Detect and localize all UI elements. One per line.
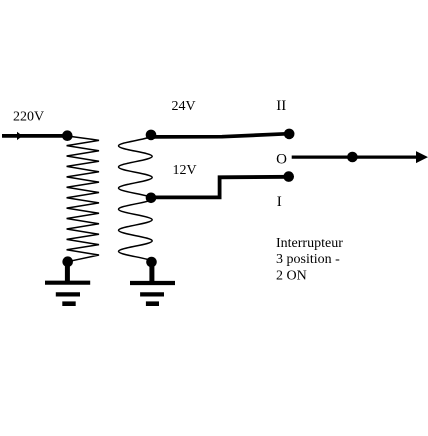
ground (primary side) (45, 262, 90, 304)
arrowhead on 220V input wire (17, 132, 23, 140)
svg-text:Interrupteur: Interrupteur (276, 236, 343, 251)
node contact II (284, 129, 295, 140)
svg-text:220V: 220V (13, 109, 44, 124)
node primary bottom (62, 256, 73, 267)
node on output wire (347, 152, 358, 163)
svg-text:I: I (277, 194, 282, 210)
node 24V tap (146, 130, 157, 141)
wire 24V tap to contact II (151, 134, 289, 137)
arrowhead output (416, 151, 428, 163)
svg-text:24V: 24V (172, 99, 196, 114)
node 220V / primary top (62, 130, 73, 141)
svg-text:O: O (276, 151, 287, 167)
node secondary bottom (146, 257, 157, 268)
node contact I (283, 171, 294, 182)
ground (secondary side) (130, 262, 175, 304)
svg-text:II: II (276, 98, 286, 114)
svg-text:12V: 12V (173, 163, 197, 178)
wire 220V input (2, 134, 64, 138)
wire output (common pole O) (292, 156, 417, 159)
node 12V tap (146, 193, 157, 204)
wire 12V tap to contact I (151, 177, 289, 198)
transformer primary winding L1 (67, 136, 99, 262)
transformer secondary winding L2 (119, 135, 153, 262)
svg-text:2 ON: 2 ON (276, 268, 307, 283)
svg-text:3 position -: 3 position - (276, 252, 340, 267)
